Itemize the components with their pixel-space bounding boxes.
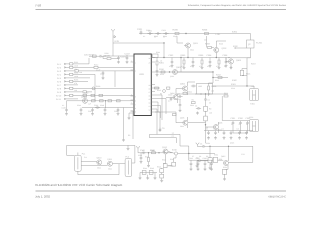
svg-text:U201: U201 [139, 73, 145, 76]
wire rail to P box [246, 34, 251, 41]
capacitor C203 series [155, 32, 160, 35]
resistor row 9 [83, 91, 86, 93]
wire lower right rail [198, 145, 253, 147]
junction dot y94 [205, 93, 206, 94]
capacitor C222 [126, 56, 129, 60]
ground under C350 [207, 136, 210, 139]
svg-text:33: 33 [239, 123, 241, 126]
wire C326 gnd stub [179, 107, 181, 109]
wire C245 drop [67, 101, 79, 108]
junction dot spur [188, 153, 189, 154]
wire FL301 right bottom [81, 165, 107, 167]
wire vertical x133 down [131, 111, 134, 139]
wire R305 drop [201, 58, 203, 67]
svg-text:R310: R310 [160, 73, 164, 76]
svg-text:R343: R343 [170, 158, 174, 161]
svg-text:0.1uF: 0.1uF [96, 69, 100, 72]
svg-text:R321: R321 [224, 92, 228, 95]
resistor R205 [175, 33, 179, 35]
svg-text:Q306: Q306 [218, 122, 222, 125]
ground under R354 [223, 178, 226, 181]
wire R301 to C301 [156, 58, 158, 69]
power flag lower right [196, 143, 200, 147]
resistor R344 box [142, 171, 146, 175]
ground under C324 [196, 112, 199, 115]
transistor Q305 [183, 120, 188, 125]
wire net line L311 [150, 134, 177, 143]
capacitor C247 shunt [91, 108, 94, 112]
ground under C308 [225, 64, 228, 67]
svg-text:Q304: Q304 [170, 92, 174, 95]
ground under C346 [204, 168, 207, 171]
resistor R320 vertical [204, 106, 208, 111]
wire Q304 leads [166, 94, 197, 103]
wire R316 leads [242, 69, 247, 76]
svg-text:470: 470 [181, 65, 184, 68]
wire C331 lower [232, 125, 234, 133]
wire VCC horizontal to node B [113, 42, 164, 44]
svg-text:R238: R238 [96, 85, 100, 88]
svg-text:SV 10: SV 10 [56, 94, 61, 97]
svg-text:0.1: 0.1 [169, 65, 171, 68]
ground under R307 [218, 66, 221, 69]
svg-text:R313: R313 [157, 89, 161, 92]
wire drop x180 [179, 100, 181, 103]
svg-text:C8: C8 [199, 155, 201, 158]
svg-text:C6: C6 [200, 143, 202, 146]
junction dot feedback x247 [246, 85, 247, 86]
junction dot x213 third [212, 77, 213, 78]
capacitor C353 [230, 131, 233, 135]
resistor R350 box [213, 157, 217, 162]
junction circle row 8 [92, 87, 95, 90]
wire R307 drop [218, 58, 220, 67]
svg-text:SV 6: SV 6 [57, 80, 61, 83]
ground under C357 [196, 165, 199, 168]
svg-text:220: 220 [204, 39, 207, 42]
wire Q306 leads [206, 122, 219, 133]
resonator Y302 shield box [250, 120, 259, 132]
svg-text:P: P [249, 43, 251, 47]
resistor R240b [91, 94, 95, 96]
node circle E310 [174, 152, 177, 155]
svg-text:33pF: 33pF [173, 35, 177, 38]
node B junction [163, 42, 164, 43]
resistor R301 vertical [156, 61, 158, 65]
svg-text:C7: C7 [192, 155, 194, 158]
capacitor C249 shunt [117, 108, 120, 112]
wire IC pin to lower right net [155, 87, 160, 89]
svg-text:C249: C249 [114, 110, 118, 113]
wire top caps bus [204, 130, 253, 132]
svg-text:SV 8: SV 8 [57, 87, 61, 90]
wire column bottom [205, 121, 207, 143]
svg-text:SV 4: SV 4 [57, 73, 61, 76]
resistor R313 [155, 87, 159, 89]
arrow marker on VCC wire [114, 36, 116, 38]
IC right pin stubs [151, 58, 155, 113]
resistor R346 box [160, 169, 164, 173]
wire R341 bottom [148, 162, 150, 164]
capacitor C325 side [191, 85, 196, 88]
ground under C306 [209, 64, 212, 67]
ground lower-left 3 [154, 177, 157, 180]
wire R315 connections [209, 78, 214, 97]
ground C213 [102, 77, 105, 80]
wire C332 lower [240, 125, 242, 133]
wire left column [209, 146, 211, 157]
wire IC feed down 2 [155, 112, 160, 131]
FL302 inner bar [127, 160, 129, 174]
ground under C245 [65, 112, 68, 115]
transistor Q231 [83, 98, 88, 103]
wire R205 down branch [177, 36, 183, 43]
wire mid rail to IC [82, 107, 131, 109]
svg-text:470: 470 [216, 65, 219, 68]
capacitor C333 [246, 121, 249, 125]
transistor Q315 [224, 161, 229, 166]
wire drop x141 [140, 153, 142, 156]
wire gnd1 stub [139, 173, 141, 177]
wire column joins [205, 102, 207, 117]
junction dot Q315 collector [228, 146, 229, 147]
wire FL302 gnd stub [127, 145, 129, 147]
capacitor C340 series [141, 152, 146, 155]
svg-text:R205: R205 [173, 29, 179, 32]
resistor R307 vertical [218, 60, 220, 64]
resistor R343 box [172, 162, 176, 166]
ground under C249 [117, 112, 120, 115]
svg-text:C246: C246 [77, 104, 81, 107]
capacitor C339 [159, 128, 162, 132]
resistor R318 box [183, 92, 187, 94]
capacitor C346 [204, 162, 207, 166]
svg-text:R316: R316 [246, 73, 250, 76]
ground under C301 [156, 73, 159, 76]
capacitor C324 side [196, 107, 201, 110]
svg-text:R231: R231 [74, 61, 78, 64]
resistor R242b row 2 [94, 66, 98, 68]
junction dots L305 [200, 93, 201, 94]
wire trio bottom bus [233, 132, 248, 134]
wire FL301 right top [81, 160, 97, 162]
junction dot x213 line2 [212, 71, 213, 72]
top rail wire [139, 33, 246, 35]
transistor Q311 [108, 161, 113, 166]
svg-text:R206: R206 [202, 29, 208, 32]
resistor R340 [152, 152, 156, 154]
capacitor C347 [210, 162, 213, 166]
capacitor C248 shunt [104, 108, 107, 112]
svg-text:C202: C202 [148, 30, 152, 33]
resistor R315 vertical [208, 86, 210, 90]
wire gnd3 stub [154, 173, 156, 177]
capacitor C352 [223, 131, 226, 135]
resistor R345 box [149, 171, 153, 175]
ground under C344 [190, 168, 193, 171]
footer rule [36, 190, 287, 192]
wire drop x148 [148, 153, 150, 157]
wire C306 drop [209, 58, 211, 60]
svg-text:C356: C356 [206, 142, 210, 145]
ground under Q303 [230, 66, 233, 69]
resistor R305 vertical [201, 60, 203, 64]
wire Q302 leads [176, 82, 195, 95]
capacitor C332 [239, 121, 242, 125]
wire C304 drop [192, 58, 194, 60]
capacitor C321 [177, 95, 182, 98]
resistor R208 [208, 47, 212, 49]
svg-text:R342: R342 [162, 159, 166, 162]
wire loop top [67, 145, 121, 155]
svg-text:3904: 3904 [190, 104, 194, 107]
svg-text:C310: C310 [231, 87, 235, 90]
svg-text:R0: R0 [209, 108, 211, 111]
wire lower-left bus [140, 172, 157, 174]
ground under IC [128, 117, 131, 120]
ground under R347 [160, 179, 163, 182]
junction dot rail right [209, 146, 210, 147]
resistor R312 [218, 77, 222, 79]
svg-text:33: 33 [231, 123, 233, 126]
ground under R352 [209, 167, 212, 170]
capacitor C308 [225, 60, 228, 64]
wire x222 branch [222, 96, 231, 121]
svg-text:HLD4022B and HLD4025B VHF VCO: HLD4022B and HLD4025B VHF VCO Carrier Sc… [35, 183, 123, 187]
svg-text:3904: 3904 [190, 49, 194, 52]
svg-text:330: 330 [84, 96, 87, 99]
wire C308 drop [225, 58, 227, 60]
resonator Y301 shield box [250, 89, 259, 101]
wire VCC branch row [103, 55, 134, 59]
svg-text:C203: C203 [154, 35, 158, 38]
wire C302 drop [171, 58, 173, 60]
wire Q201 emitter down [184, 46, 188, 58]
resistor R220 [107, 58, 111, 60]
svg-text:FL1: FL1 [84, 156, 87, 159]
svg-text:Q315: Q315 [221, 155, 225, 158]
svg-text:SV 7: SV 7 [57, 84, 61, 87]
wire mid net y86 to shield [213, 85, 250, 87]
svg-text:R345: R345 [150, 167, 154, 170]
svg-text:C2: C2 [208, 99, 210, 102]
svg-text:R341: R341 [145, 156, 149, 159]
wire pins bus 2 [155, 99, 166, 115]
junction dot line2 [169, 71, 170, 72]
svg-text:C248: C248 [100, 104, 104, 107]
ground under C248 [104, 112, 107, 115]
svg-text:SV 9: SV 9 [57, 91, 61, 94]
junction circle lower [163, 90, 166, 93]
ground under C302 [171, 64, 174, 67]
svg-text:3904: 3904 [188, 91, 192, 94]
svg-text:C201: C201 [137, 28, 143, 31]
capacitor C355 [245, 131, 248, 135]
op-amp U201 main IC [134, 54, 151, 116]
wire R354 bottom [224, 174, 226, 177]
junction dot Q201 rail [187, 57, 188, 58]
ground lower-left 2 [146, 177, 149, 180]
svg-text:0.1: 0.1 [224, 65, 226, 68]
wire Y301 top stub [249, 86, 254, 89]
wire lower rail [138, 150, 173, 153]
svg-text:R350: R350 [214, 154, 218, 157]
capacitor C306 [209, 60, 212, 64]
wire second line from IC pin [155, 71, 213, 73]
wire x213 vertical [212, 72, 214, 78]
svg-text:SV 1: SV 1 [57, 63, 61, 66]
wire right feedback down [247, 58, 251, 86]
filter FL201 box P [247, 40, 255, 48]
svg-text:R346: R346 [157, 166, 161, 169]
svg-text:33: 33 [246, 123, 248, 126]
ground near FL302 top [127, 147, 130, 150]
ground under C247 [91, 112, 94, 115]
wire vertical to bottom module [123, 108, 125, 139]
main 9V rail right of IC [151, 57, 230, 59]
capacitor C350 [207, 131, 210, 135]
wire Q301 collector up [178, 58, 213, 73]
svg-text:C7: C7 [196, 157, 198, 160]
svg-text:R340: R340 [151, 149, 155, 152]
transistor Q306 [214, 125, 219, 130]
wire pins bus 1 [155, 95, 162, 120]
wire C248 drop [104, 101, 107, 108]
wire Q315 emitter [225, 165, 229, 170]
capacitor C341 [140, 156, 143, 160]
junction dot Q202 rail [216, 57, 217, 58]
power flag VCC top [111, 30, 115, 34]
capacitor C301 [156, 69, 159, 73]
wire C346 stub [204, 160, 206, 167]
resistor R352 box [208, 158, 212, 163]
svg-text:SV 5: SV 5 [57, 77, 61, 80]
ground under C326 [179, 109, 182, 112]
ground under C353 [230, 136, 233, 139]
capacitor C213 row 3 [102, 71, 105, 75]
transistor Q302 [183, 86, 188, 91]
ground under C222 [126, 61, 129, 64]
wire node right [168, 152, 215, 154]
transistor Q301 [173, 70, 178, 75]
transistor Q303 [229, 59, 234, 64]
svg-text:R354: R354 [223, 166, 227, 169]
wire C249 drop [117, 107, 119, 109]
capacitor C356 series [201, 145, 206, 148]
capacitor C246 shunt [80, 108, 83, 112]
svg-text:SV 2: SV 2 [57, 66, 61, 69]
svg-text:SV 3: SV 3 [57, 70, 61, 73]
junction dot column [205, 124, 206, 125]
ground under C354 [238, 136, 241, 139]
transistor Q312 [163, 149, 168, 154]
svg-text:R240: R240 [84, 91, 88, 94]
svg-text:E201: E201 [232, 31, 238, 34]
svg-text:0.1: 0.1 [190, 65, 192, 68]
wire net line L310 [157, 134, 189, 160]
wire spur line into R350 [212, 159, 214, 161]
resistor R354 box [223, 169, 227, 174]
svg-text:L201: L201 [216, 33, 222, 36]
wire C246 drop [80, 107, 82, 109]
wire IC feed down 1 [155, 109, 157, 134]
wire x115 vertical [114, 71, 116, 87]
junction dot top rail [185, 33, 186, 34]
header rule [36, 9, 287, 11]
ground under C351 [214, 136, 217, 139]
svg-text:0.1: 0.1 [168, 100, 170, 103]
svg-text:C204: C204 [162, 29, 166, 32]
svg-text:Q6: Q6 [206, 126, 208, 129]
svg-text:0.1: 0.1 [62, 104, 64, 107]
ground under C221 [117, 61, 120, 64]
ground under R341 [147, 164, 150, 167]
resistor R206 [205, 33, 209, 35]
svg-text:Q315: Q315 [230, 142, 234, 145]
wire third line [213, 77, 228, 79]
wire C347 stub [211, 160, 213, 167]
resistor R322 vertical [204, 116, 208, 121]
wire gnd2 stub [147, 175, 149, 177]
wire Q305 leads [155, 112, 206, 128]
svg-text:FL201: FL201 [256, 42, 263, 45]
wire VCC down [112, 33, 114, 56]
wire R350 to Q315 [218, 159, 224, 161]
wire loop right [229, 146, 253, 162]
transistor Q201 [186, 43, 191, 48]
resistor R243 [100, 100, 104, 102]
Y302 inner bars [253, 121, 256, 131]
wire R303 drop [183, 58, 185, 67]
svg-text:E3: E3 [128, 134, 130, 137]
wire Q311 to FL302 [113, 163, 126, 165]
resistor R347 box [160, 174, 164, 178]
svg-text:R234: R234 [74, 71, 78, 74]
wire C213 stub [102, 71, 104, 77]
svg-text:5: 5 [131, 93, 132, 96]
ground lower-left 1 [139, 177, 142, 180]
svg-text:Schematics, Component Location: Schematics, Component Location Diagrams,… [188, 4, 287, 7]
capacitor C245 shunt [65, 108, 68, 112]
svg-text:July 1, 2002: July 1, 2002 [35, 195, 51, 199]
svg-text:C9: C9 [206, 155, 208, 158]
wire C357 link [197, 161, 208, 165]
svg-text:7: 7 [131, 101, 132, 104]
ground bottom of drop [122, 139, 125, 142]
wire lower-left rail [78, 100, 134, 102]
svg-text:C247: C247 [88, 110, 92, 113]
wire top net y94 [195, 93, 228, 95]
svg-text:1uF: 1uF [88, 103, 91, 106]
resistor R314 box [167, 87, 170, 89]
svg-text:C4: C4 [195, 104, 197, 107]
svg-text:R344: R344 [143, 167, 147, 170]
wire R352 bottom [209, 163, 211, 167]
svg-text:470: 470 [199, 65, 202, 68]
capacitor C354 [238, 131, 241, 135]
svg-text:R9: R9 [192, 99, 194, 102]
svg-text:3904: 3904 [180, 125, 184, 128]
capacitor C202 series [147, 32, 152, 35]
transistor Q202 [214, 48, 219, 53]
wire FL302 right up [121, 145, 135, 163]
capacitor C322 [204, 97, 207, 101]
resistor R310 [161, 71, 165, 73]
svg-text:L305: L305 [198, 85, 202, 88]
wire pins bus 4 [155, 106, 161, 119]
resistor R245 [117, 100, 121, 102]
wire Q315 collector [228, 146, 230, 161]
